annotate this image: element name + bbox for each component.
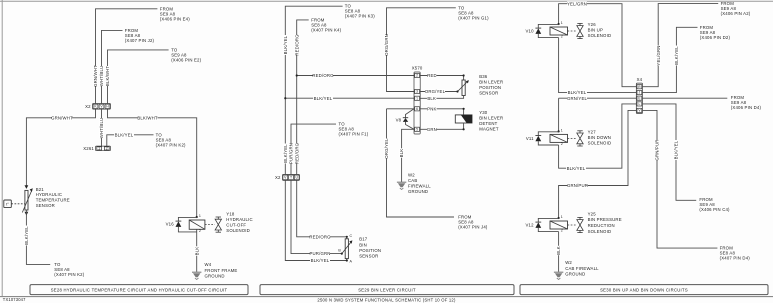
svg-text:BLK: BLK bbox=[399, 149, 404, 158]
svg-text:YEL/GRN: YEL/GRN bbox=[656, 45, 661, 65]
svg-text:1: 1 bbox=[98, 147, 100, 151]
svg-text:SENSOR: SENSOR bbox=[36, 203, 55, 208]
wire label PNK bbox=[427, 106, 436, 111]
wire label BLK/YEL (X261 branch) bbox=[114, 132, 134, 137]
svg-text:1: 1 bbox=[561, 215, 563, 219]
svg-text:PUR/GRN: PUR/GRN bbox=[289, 143, 294, 164]
ground label W4 front frame ground bbox=[205, 262, 238, 278]
svg-text:T: T bbox=[290, 176, 292, 180]
wire label BLK/YEL (Y27 return) bbox=[566, 166, 586, 171]
svg-text:V16: V16 bbox=[166, 222, 175, 227]
junction RED/ORG bbox=[296, 74, 298, 76]
wire label ORG/YEL bbox=[425, 89, 446, 94]
svg-text:W2: W2 bbox=[565, 260, 572, 265]
svg-text:L: L bbox=[639, 102, 641, 106]
wire from X570 pin 6 (left side) bbox=[387, 108, 415, 110]
wire label RED bbox=[427, 73, 437, 78]
svg-text:GRN/YEL: GRN/YEL bbox=[567, 96, 588, 101]
svg-text:BLK/YEL: BLK/YEL bbox=[674, 46, 679, 65]
component label Y30 bin lever detent magnet bbox=[479, 110, 503, 132]
wire label PUR/GRN (above middle X2) bbox=[289, 143, 294, 164]
wire label BLK/YEL (above middle X2) bbox=[283, 144, 288, 164]
net label FROM SE9 A8 (X406 PIN A2) bbox=[721, 1, 751, 16]
harness arrow above B21 bbox=[25, 185, 29, 189]
connector X261 bbox=[96, 146, 111, 151]
svg-text:BLK/YEL: BLK/YEL bbox=[567, 166, 586, 171]
wire label GRN/WHT (lower) bbox=[51, 115, 73, 120]
svg-text:(X406 PIN C4): (X406 PIN C4) bbox=[699, 207, 730, 212]
svg-text:BLK/YEL: BLK/YEL bbox=[24, 226, 29, 245]
svg-text:HYDRAULIC: HYDRAULIC bbox=[36, 192, 62, 197]
svg-text:BLK/YEL: BLK/YEL bbox=[283, 144, 288, 163]
wire label BLK/YEL (down riser) bbox=[674, 140, 679, 160]
net label TO SE8 A8 (X407 PIN K2) bbox=[54, 262, 84, 277]
ground label W2 cab firewall ground (middle) bbox=[408, 173, 431, 195]
svg-text:Y18: Y18 bbox=[226, 212, 235, 217]
wire label GRN/PUR (Y25 feed) bbox=[567, 183, 588, 188]
svg-text:(X407 PIN K4): (X407 PIN K4) bbox=[311, 27, 341, 32]
svg-text:2500 N 3WD SYSTEM FUNCTIONAL S: 2500 N 3WD SYSTEM FUNCTIONAL SCHEMATIC (… bbox=[317, 298, 456, 303]
wire label BLK/WHT (to solenoid) bbox=[137, 115, 158, 120]
title box SE30 bin up and bin down circuits bbox=[520, 285, 768, 295]
svg-text:GRN/PUR: GRN/PUR bbox=[567, 183, 588, 188]
ground label W2 cab firewall ground (right) bbox=[565, 260, 599, 277]
net label TO SE8 A8 (X407 PIN K2) right bbox=[156, 132, 186, 147]
wire BLK/YEL to X570 pin 1 bbox=[285, 97, 414, 99]
wire label BLK (right ground lead) bbox=[556, 246, 561, 255]
wire label RED/ORG (above middle X2) bbox=[294, 142, 299, 164]
connector X2 (left) bbox=[93, 104, 111, 110]
sensor element B36 bin lever position sensor bbox=[462, 80, 465, 96]
wire RED from X570 pin 2 to B36 sensor bbox=[420, 76, 463, 81]
wire label BLK (B36) bbox=[427, 96, 436, 101]
title box SE29 bin lever circuit bbox=[260, 285, 514, 295]
flyback diode V12 bbox=[538, 218, 558, 231]
svg-text:SOLENOID: SOLENOID bbox=[226, 228, 250, 233]
svg-text:B21: B21 bbox=[36, 187, 45, 192]
svg-text:HYDRAULIC: HYDRAULIC bbox=[226, 217, 252, 222]
net label FROM SE8 A8 (X407 PIN J4) bbox=[458, 215, 488, 230]
ground W2 cab firewall (middle) bbox=[397, 182, 406, 189]
net label FROM SE8 A8 (X407 PIN J2) bbox=[125, 28, 155, 43]
wire BLK/YEL from Y26 coil pin 2 to X4 pin J bbox=[559, 38, 637, 93]
svg-text:V10: V10 bbox=[526, 29, 535, 34]
wire label BLK/YEL (middle left) bbox=[283, 35, 288, 55]
junction B17 pin B bbox=[341, 253, 343, 255]
dashed link coil to Y25 valve bbox=[568, 224, 577, 226]
wire ORG/YEL from X570 pin 6 to X407 pin J4 bbox=[387, 109, 455, 217]
svg-text:BLK/YEL: BLK/YEL bbox=[311, 258, 330, 263]
svg-text:(X407 PIN F1): (X407 PIN F1) bbox=[339, 132, 369, 137]
wire BLK/YEL from B21 to X407 pin K2 bbox=[26, 210, 50, 264]
wire riser Y27 coil pin 1 bbox=[558, 98, 560, 131]
svg-text:(X407 PIN K3): (X407 PIN K3) bbox=[345, 14, 375, 19]
wire label ORG/GRN bbox=[384, 34, 389, 56]
svg-text:RED: RED bbox=[427, 73, 437, 78]
net label FROM SE9 A8 (X406 PIN E4) bbox=[160, 6, 190, 21]
svg-text:BLK/YEL: BLK/YEL bbox=[115, 132, 134, 137]
svg-text:2: 2 bbox=[561, 142, 563, 146]
svg-text:2: 2 bbox=[416, 74, 418, 78]
svg-text:A: A bbox=[350, 260, 353, 264]
svg-text:GROUND: GROUND bbox=[565, 272, 585, 277]
svg-text:SOLENOID: SOLENOID bbox=[588, 140, 612, 145]
wire WHT/BLU from X407 pin J2 to X2 pin V bbox=[102, 30, 123, 103]
svg-text:(X406 PIN A2): (X406 PIN A2) bbox=[721, 11, 751, 16]
wire GRN/YEL from Y27 coil pin 1 to X4 pin E bbox=[559, 97, 637, 99]
svg-text:2: 2 bbox=[199, 229, 201, 233]
pin 1 of V11 coil bbox=[558, 130, 560, 132]
wire label BLK/YEL (to X570) bbox=[313, 96, 333, 101]
svg-text:GROUND: GROUND bbox=[408, 189, 428, 194]
svg-text:BIN DOWN: BIN DOWN bbox=[588, 135, 611, 140]
wire label RED/ORG (middle left) bbox=[294, 34, 299, 56]
wire WHT/BLU from X2 pin V to X261 pin 1 bbox=[101, 109, 103, 146]
dashed link coil to Y26 valve bbox=[568, 30, 577, 32]
svg-text:POSITION: POSITION bbox=[479, 85, 501, 90]
wire PUR/GRN from X2 pin T to X407 pin F1 bbox=[291, 124, 336, 174]
wire ORG/GRN from X407 pin G1 to X570 pin 3 bbox=[387, 8, 456, 92]
svg-text:W2: W2 bbox=[408, 173, 415, 178]
wire BLK/WHT from X2 pin H to X406 pin E2 bbox=[108, 50, 169, 104]
svg-text:BIN PRESSURE: BIN PRESSURE bbox=[588, 217, 622, 222]
svg-text:C: C bbox=[350, 234, 353, 238]
svg-text:SENSOR: SENSOR bbox=[359, 254, 378, 259]
svg-text:SE29 BIN LEVER CIRCUIT: SE29 BIN LEVER CIRCUIT bbox=[358, 287, 416, 292]
svg-text:X261: X261 bbox=[83, 146, 94, 151]
harness arrow below B21 bbox=[25, 212, 29, 216]
valve symbol Y18 bbox=[215, 217, 221, 232]
pin 1 of V16 coil bbox=[196, 216, 198, 218]
svg-text:2: 2 bbox=[561, 35, 563, 39]
junction at B36 top bbox=[463, 74, 465, 76]
svg-text:Y30: Y30 bbox=[479, 110, 488, 115]
svg-text:POSITION: POSITION bbox=[359, 248, 381, 253]
svg-text:V11: V11 bbox=[526, 136, 534, 141]
wire label BLK/WHT bbox=[105, 66, 110, 87]
svg-text:(X407 PIN K2): (X407 PIN K2) bbox=[54, 272, 84, 277]
svg-text:DETENT: DETENT bbox=[479, 121, 497, 126]
svg-text:RED/ORG: RED/ORG bbox=[294, 142, 299, 164]
wire BLK/WHT from X2 pin H to Y18 solenoid coil bbox=[108, 109, 197, 217]
svg-text:BLK: BLK bbox=[427, 96, 436, 101]
svg-text:SE28 HYDRAULIC TEMPERATURE CIR: SE28 HYDRAULIC TEMPERATURE CIRCUIT AND H… bbox=[51, 287, 228, 292]
svg-text:Y25: Y25 bbox=[588, 211, 597, 216]
title box SE28 hydraulic temperature circuit and hydraulic cut-off circuit bbox=[30, 285, 248, 295]
wire BLK/YEL from X2 pin V to B17 pin A bbox=[285, 180, 347, 260]
net label TO SE9 A8 (X406 PIN E2) bbox=[171, 47, 201, 62]
wire label BLK/YEL (to B17) bbox=[310, 258, 330, 263]
wire BLK/YEL from X2 pin V to X407 pin K3 bbox=[285, 6, 342, 174]
component label B17 bin position sensor bbox=[359, 237, 381, 259]
connector X570 bbox=[414, 72, 420, 134]
svg-text:(X406 PIN E2): (X406 PIN E2) bbox=[171, 57, 201, 62]
svg-text:W4: W4 bbox=[205, 262, 212, 267]
svg-text:t°: t° bbox=[6, 201, 9, 206]
solenoid coil of V11 driver bbox=[550, 134, 568, 142]
wire label GRN/PUR (down riser) bbox=[655, 139, 660, 160]
solenoid coil of V12 driver bbox=[550, 221, 568, 229]
wire GRN/WHT from X2 pin K to B21 sensor bbox=[26, 109, 95, 186]
connector X4 bbox=[636, 83, 642, 113]
svg-text:V8: V8 bbox=[396, 118, 402, 123]
svg-text:GRN/WHT: GRN/WHT bbox=[93, 65, 98, 87]
svg-text:E: E bbox=[638, 96, 640, 100]
svg-text:V12: V12 bbox=[526, 223, 535, 228]
svg-text:(X407 PIN J2): (X407 PIN J2) bbox=[125, 38, 155, 43]
wire GRN/PUR from X4 pin V to X407 pin D4 bbox=[643, 110, 718, 248]
wire YEL/GRN from X406 pin A2 to X4 pin R bbox=[643, 4, 719, 87]
wire label WHT/BLU (to X261) bbox=[99, 118, 104, 139]
wire label ORG/YEL (down) bbox=[384, 138, 389, 159]
svg-text:GROUND: GROUND bbox=[205, 274, 225, 279]
dashed link coil to Y27 valve bbox=[568, 137, 577, 139]
sensor element B17 bin position sensor bbox=[345, 239, 348, 259]
wire PNK from X570 pin 6 to Y30 magnet bbox=[420, 109, 463, 115]
valve symbol Y27 bbox=[577, 131, 583, 146]
svg-text:TEMPERATURE: TEMPERATURE bbox=[36, 198, 70, 203]
wire label BLK/YEL (B21 return) bbox=[24, 226, 29, 246]
junction Y30 top bbox=[463, 108, 465, 110]
svg-text:B: B bbox=[338, 249, 341, 253]
net label FROM SE9 A8 (X406 PIN D4) bbox=[731, 95, 762, 110]
net label TO SE8 A8 (X407 PIN G1) bbox=[458, 5, 489, 20]
svg-text:6: 6 bbox=[416, 107, 418, 111]
component label B36 bin lever position sensor bbox=[479, 74, 503, 96]
flyback diode V10 bbox=[538, 24, 558, 37]
pin 1 of V12 coil bbox=[558, 217, 560, 219]
wire label WHT/BLU bbox=[99, 66, 104, 87]
ground W2 cab firewall (right) bbox=[554, 272, 563, 279]
svg-text:RED/ORG: RED/ORG bbox=[294, 34, 299, 56]
wire label BLK/YEL (right riser) bbox=[674, 46, 679, 66]
svg-text:BLK/YEL: BLK/YEL bbox=[283, 35, 288, 54]
component label Y26 bin up solenoid bbox=[588, 22, 612, 38]
svg-text:CAB FIREWALL: CAB FIREWALL bbox=[565, 266, 599, 271]
svg-text:PUR/GRN: PUR/GRN bbox=[309, 251, 330, 256]
svg-text:RED/ORG: RED/ORG bbox=[309, 234, 331, 239]
svg-text:ORG/YEL: ORG/YEL bbox=[425, 89, 446, 94]
wire label GRN/YEL (Y27 feed) bbox=[567, 96, 588, 101]
junction Y30 bottom bbox=[463, 128, 465, 130]
svg-text:1: 1 bbox=[199, 214, 201, 218]
wire GRN from X570 pin 5 to Y30 magnet bbox=[420, 123, 463, 129]
wire RED/ORG from X2 pin U to B17 pin C bbox=[297, 180, 347, 238]
svg-text:1: 1 bbox=[561, 129, 563, 133]
svg-text:(X407 PIN K2): (X407 PIN K2) bbox=[156, 142, 186, 147]
net label TO SE8 A8 (X407 PIN F1) bbox=[339, 122, 369, 137]
svg-text:ORG/GRN: ORG/GRN bbox=[384, 34, 389, 56]
valve symbol Y25 bbox=[577, 217, 583, 232]
svg-text:(X407 PIN D4): (X407 PIN D4) bbox=[720, 256, 751, 261]
svg-text:MAGNET: MAGNET bbox=[479, 127, 499, 132]
svg-text:CUT-OFF: CUT-OFF bbox=[226, 223, 246, 228]
solenoid coil of V16 driver bbox=[189, 220, 205, 229]
svg-text:WHT/BLU: WHT/BLU bbox=[99, 118, 104, 139]
wire label PUR/GRN (to B17) bbox=[309, 251, 330, 256]
net label FROM SE8 A8 (X407 PIN D4) bbox=[720, 246, 751, 261]
net label FROM SE9 A8 (X406 PIN D2) bbox=[700, 25, 731, 40]
wire PUR/GRN from X2 pin T to B17 wiper B bbox=[291, 180, 342, 253]
wire label GRN bbox=[427, 127, 437, 132]
junction B36 wiper bbox=[456, 90, 458, 92]
svg-text:BLK: BLK bbox=[556, 246, 561, 255]
svg-text:1: 1 bbox=[561, 21, 563, 25]
svg-text:B36: B36 bbox=[479, 74, 488, 79]
svg-text:BIN UP: BIN UP bbox=[588, 27, 603, 32]
net label TO SE8 A8 (X407 PIN K3) bbox=[345, 4, 375, 19]
junction B17 pin A bbox=[346, 259, 348, 261]
solenoid coil of V10 driver bbox=[550, 27, 568, 35]
wire label YEL/GRN (top) bbox=[567, 1, 587, 6]
wire BLK/YEL from X4 pin L to X406 pin C4 bbox=[643, 104, 697, 200]
wire label RED/ORG (to X570) bbox=[312, 73, 334, 78]
net label FROM SE9 A8 (X406 PIN C4) bbox=[699, 197, 730, 212]
wire YEL/GRN from Y26 coil pin 1 to X4 pin R bbox=[559, 4, 637, 87]
svg-text:FRONT FRAME: FRONT FRAME bbox=[205, 268, 238, 273]
svg-text:3: 3 bbox=[416, 90, 418, 94]
svg-text:BIN LEVER: BIN LEVER bbox=[479, 79, 503, 84]
wire label RED/ORG (to B17) bbox=[309, 234, 331, 239]
svg-text:BLK/WHT: BLK/WHT bbox=[137, 115, 158, 120]
wire ORG/YEL from X570 pin 3 to B36 wiper bbox=[420, 91, 457, 93]
dashed mechanical link t-probe to B21 bbox=[11, 203, 25, 205]
svg-text:(X407 PIN G1): (X407 PIN G1) bbox=[458, 15, 489, 20]
svg-text:SOLENOID: SOLENOID bbox=[588, 33, 612, 38]
svg-text:GRN: GRN bbox=[427, 127, 437, 132]
wire label YEL/GRN (right riser) bbox=[656, 45, 661, 65]
wire BLK/YEL from Y27 coil pin 2 to X4 pin L bbox=[559, 104, 637, 168]
svg-text:1: 1 bbox=[416, 96, 418, 100]
svg-text:BLK/YEL: BLK/YEL bbox=[314, 96, 333, 101]
svg-text:BLK/WHT: BLK/WHT bbox=[105, 66, 110, 87]
component label Y25 bin pressure reduction solenoid bbox=[588, 211, 622, 233]
svg-text:GRN/PUR: GRN/PUR bbox=[655, 139, 660, 160]
ground W4 front frame bbox=[192, 272, 201, 279]
svg-text:REDUCTION: REDUCTION bbox=[588, 223, 615, 228]
svg-text:BIN LEVER: BIN LEVER bbox=[479, 116, 503, 121]
component label Y18 hydraulic cut-off solenoid bbox=[226, 212, 252, 233]
svg-text:Y27: Y27 bbox=[588, 129, 597, 134]
connector X2 (middle) bbox=[283, 174, 300, 180]
wire GRN/PUR from Y25 coil pin 1 to X4 pin V bbox=[559, 110, 637, 218]
svg-text:X570: X570 bbox=[412, 66, 423, 71]
wire BLK/YEL from X261 pin 2 to X407 pin K2 bbox=[107, 135, 154, 146]
pin 1 of V10 coil bbox=[558, 23, 560, 25]
svg-text:Y26: Y26 bbox=[588, 22, 597, 27]
svg-text:5: 5 bbox=[416, 127, 418, 131]
svg-text:PNK: PNK bbox=[427, 106, 436, 111]
flyback diode V11 bbox=[538, 132, 558, 145]
svg-text:CAB: CAB bbox=[408, 178, 417, 183]
flyback diode V8 bbox=[406, 109, 415, 130]
wire label BLK (left ground lead) bbox=[194, 246, 199, 255]
wire BLK from X570 pin 1 to B36 sensor bottom bbox=[420, 96, 463, 99]
svg-text:BLK/YEL: BLK/YEL bbox=[568, 90, 587, 95]
wire BLK/YEL from X406 pin D2 to X4 pin J bbox=[643, 27, 698, 92]
svg-text:GRN/WHT: GRN/WHT bbox=[51, 115, 73, 120]
svg-text:YEL/GRN: YEL/GRN bbox=[567, 1, 587, 6]
svg-text:BLK/YEL: BLK/YEL bbox=[674, 140, 679, 159]
wire RED/ORG to X570 pin 2 bbox=[297, 75, 414, 77]
component label Y27 bin down solenoid bbox=[588, 129, 612, 145]
wire label BLK/YEL (Y26 return) bbox=[567, 90, 587, 95]
svg-text:SE30 BIN UP AND BIN DOWN CIRCU: SE30 BIN UP AND BIN DOWN CIRCUITS bbox=[600, 287, 688, 292]
svg-text:X4: X4 bbox=[637, 77, 643, 82]
wire GRN/YEL from X4 pin E to X406 pin D4 bbox=[643, 97, 728, 99]
wire BLK from X570 pin 5 to ground W2 bbox=[402, 129, 414, 182]
net label FROM SE8 A8 (X407 PIN K4) bbox=[311, 17, 341, 32]
svg-text:RED/ORG: RED/ORG bbox=[312, 73, 334, 78]
svg-text:(X406 PIN D2): (X406 PIN D2) bbox=[700, 35, 731, 40]
wire RED/ORG from X407 pin K4 to X2 pin U bbox=[297, 20, 309, 175]
dashed link coil to Y18 valve bbox=[205, 224, 215, 226]
svg-text:BLK: BLK bbox=[194, 247, 199, 256]
svg-text:X2: X2 bbox=[275, 175, 281, 180]
svg-text:FIREWALL: FIREWALL bbox=[408, 184, 431, 189]
svg-text:BIN: BIN bbox=[359, 242, 367, 247]
svg-text:(X406 PIN D4): (X406 PIN D4) bbox=[731, 105, 762, 110]
svg-text:2: 2 bbox=[561, 229, 563, 233]
wire label GRN/WHT bbox=[93, 65, 98, 87]
svg-text:WHT/BLU: WHT/BLU bbox=[99, 66, 104, 87]
svg-text:B17: B17 bbox=[359, 237, 368, 242]
junction B17 pin C bbox=[346, 236, 348, 238]
valve symbol Y26 bbox=[577, 23, 583, 38]
svg-text:(X406 PIN E4): (X406 PIN E4) bbox=[160, 16, 190, 21]
svg-text:(X407 PIN J4): (X407 PIN J4) bbox=[458, 225, 488, 230]
flyback diode V16 bbox=[178, 217, 196, 232]
svg-text:ORG/YEL: ORG/YEL bbox=[384, 138, 389, 159]
wire GRN/WHT from X406 pin E4 to X2 pin K bbox=[96, 9, 158, 104]
svg-text:2: 2 bbox=[106, 147, 108, 151]
svg-text:X2: X2 bbox=[85, 104, 91, 109]
svg-text:SOLENOID: SOLENOID bbox=[588, 229, 612, 234]
detent magnet Y30 coil symbol bbox=[455, 115, 472, 123]
component label B21 hydraulic temperature sensor bbox=[36, 187, 70, 208]
wire BLK from Y25 coil pin 2 to ground W2 bbox=[558, 232, 560, 272]
sensor element B21 bbox=[25, 190, 28, 210]
svg-text:TX1073047: TX1073047 bbox=[3, 297, 26, 302]
wire BLK from Y18 coil pin 2 to ground W4 bbox=[196, 229, 198, 271]
svg-text:SENSOR: SENSOR bbox=[479, 90, 498, 95]
junction BLK/YEL bbox=[284, 97, 286, 99]
wire label BLK (middle ground lead) bbox=[399, 148, 404, 157]
temperature probe symbol of B21 bbox=[4, 200, 12, 208]
